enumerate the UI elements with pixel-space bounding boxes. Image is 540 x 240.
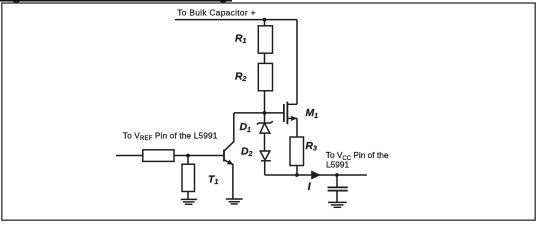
diode D2 — [260, 151, 271, 175]
svg-text:R1: R1 — [235, 34, 247, 46]
svg-text:M1: M1 — [306, 108, 319, 120]
wire M1 drain lead — [287, 103, 297, 105]
caption text cut off at top edge — [0, 0, 232, 3]
wire source to R3 — [296, 118, 298, 137]
diode D1 zener — [257, 113, 273, 133]
svg-text:R3: R3 — [306, 141, 318, 153]
wire pulldown to ground — [187, 192, 189, 200]
resistor R1 — [258, 26, 272, 53]
svg-text:T1: T1 — [208, 174, 218, 186]
ground capacitor — [328, 202, 347, 207]
transistor T1 — [224, 113, 234, 199]
wire base lead left — [116, 155, 143, 157]
node junction base wire / pulldown — [186, 154, 190, 158]
wire M1 source lead — [287, 117, 297, 119]
svg-text:To Bulk Capacitor +: To Bulk Capacitor + — [177, 7, 255, 17]
ground pulldown — [181, 199, 197, 204]
svg-text:To VREF Pin of the L5991: To VREF Pin of the L5991 — [123, 131, 218, 143]
ground T1 emitter — [226, 199, 243, 204]
svg-text:D2: D2 — [241, 146, 253, 158]
wire right vertical to drain — [296, 20, 298, 105]
capacitor C — [328, 175, 348, 202]
wire R1 to R2 — [264, 53, 266, 63]
wire top rail to R1 — [264, 20, 266, 26]
wire top rail — [175, 19, 297, 21]
resistor R2 — [258, 63, 272, 90]
wire gate line — [234, 112, 284, 114]
node junction gate / divider / zener — [263, 111, 267, 115]
arrow M1 source — [291, 116, 296, 121]
resistor pulldown (vertical) — [182, 164, 195, 191]
transistor M1 gate bar — [283, 104, 285, 122]
wire R2 to gate node — [264, 91, 266, 113]
wire resistor to T1 base — [174, 155, 224, 157]
svg-text:L5991: L5991 — [326, 160, 349, 170]
resistor R3 — [290, 137, 304, 166]
svg-text:I: I — [308, 181, 312, 193]
node junction capacitor / bottom rail — [335, 173, 339, 177]
node junction top rail / R1 — [263, 18, 267, 22]
svg-text:R2: R2 — [235, 72, 247, 84]
wire bottom rail — [265, 174, 367, 176]
arrow current I — [311, 171, 321, 180]
node junction R3 / bottom rail — [295, 173, 299, 177]
svg-text:D1: D1 — [240, 122, 252, 134]
wire D1 to D2 — [264, 133, 266, 151]
transistor M1 channel bar — [286, 102, 288, 125]
wire junction to pulldown resistor — [187, 156, 189, 165]
wire R3 to bottom rail — [296, 166, 298, 176]
resistor base (horizontal) — [143, 150, 174, 162]
